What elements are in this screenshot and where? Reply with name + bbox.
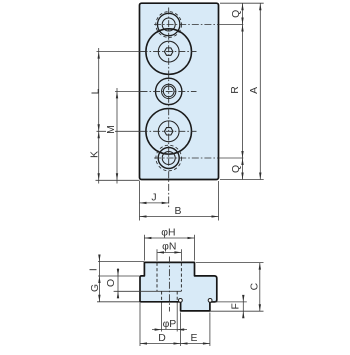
extension line bottom-right of plate bbox=[220, 179, 264, 181]
hole H3 thread inner circle bbox=[163, 86, 174, 97]
centerline hole H1 bbox=[154, 24, 219, 26]
svg-text:O: O bbox=[106, 279, 117, 287]
centerline hole H3 bbox=[141, 90, 197, 92]
centerline hole H4 bbox=[141, 130, 197, 132]
extension line top-right of plate bbox=[220, 2, 264, 4]
extension line body top left bbox=[98, 275, 140, 277]
extension line hole H2 to L dimension bbox=[97, 51, 141, 53]
extension line B right bbox=[218, 181, 220, 221]
hole H5 hidden counterbore dashed circle bbox=[156, 145, 182, 171]
dimension line D bbox=[140, 343, 181, 345]
hole H3 thread outer circle bbox=[162, 84, 176, 98]
dimension line phiN bbox=[157, 251, 181, 253]
svg-text:G: G bbox=[90, 284, 101, 292]
extension line phiH right bbox=[194, 235, 196, 261]
hole H3 outer circle bbox=[156, 78, 182, 104]
svg-text:F: F bbox=[230, 303, 241, 309]
extension line hole H1 to Q dimension bbox=[219, 24, 243, 26]
extension line phiH left bbox=[143, 235, 145, 261]
svg-text:R: R bbox=[230, 86, 241, 94]
svg-text:Q: Q bbox=[231, 165, 242, 173]
hidden line hole P right bbox=[176, 291, 178, 303]
hole H1 hidden counterbore dashed circle bbox=[156, 12, 182, 38]
extension line D E middle bbox=[180, 313, 182, 347]
hole H4 screw head circle bbox=[158, 121, 179, 142]
dimension line J bbox=[140, 202, 169, 204]
svg-text:φH: φH bbox=[161, 228, 175, 239]
dimension line E bbox=[181, 343, 210, 345]
dimension line I G bbox=[98, 256, 100, 302]
extension line bottom-left of plate bbox=[96, 179, 140, 181]
extension line body bottom left bbox=[97, 301, 140, 303]
extension line foot bottom right bbox=[211, 310, 264, 312]
svg-text:φP: φP bbox=[163, 319, 177, 330]
svg-text:M: M bbox=[106, 125, 117, 134]
extension line hole H4 to K dimension bbox=[97, 130, 141, 132]
dimension line Q R Q bbox=[242, 3, 244, 179]
dimension line L K bbox=[98, 48, 100, 184]
hole H4 hex socket bbox=[164, 128, 173, 135]
relief notch left bbox=[179, 299, 183, 303]
svg-text:A: A bbox=[249, 87, 260, 94]
dimension line F bbox=[242, 295, 244, 318]
hole H1 inner circle bbox=[162, 18, 175, 31]
extension line hole H3 to M dimension bbox=[115, 90, 141, 92]
hole H5 outer circle bbox=[158, 148, 179, 169]
dimension line C bbox=[259, 263, 261, 312]
hole H2 screw head circle bbox=[158, 41, 179, 62]
hole H2 counterbore outer circle bbox=[146, 29, 192, 75]
extension line phiP right bbox=[176, 303, 178, 332]
svg-text:φN: φN bbox=[162, 242, 176, 253]
centerline hole H5 bbox=[154, 157, 219, 159]
extension line D left bbox=[139, 303, 141, 346]
dimension line O bbox=[117, 268, 119, 299]
counterbore depth line bbox=[114, 290, 182, 292]
svg-text:D: D bbox=[158, 333, 166, 344]
dimension line M bbox=[116, 88, 118, 184]
dimension line A bbox=[259, 3, 261, 179]
svg-text:Q: Q bbox=[231, 10, 242, 18]
svg-text:J: J bbox=[151, 193, 156, 204]
extension line phiN right bbox=[180, 249, 182, 260]
svg-text:B: B bbox=[175, 206, 182, 217]
hidden line counterbore N left bbox=[156, 263, 158, 292]
hole H5 inner circle bbox=[162, 152, 175, 165]
hidden line hole P left bbox=[161, 291, 163, 303]
extension line hole H5 to Q dimension bbox=[219, 157, 243, 159]
extension line step right bbox=[212, 301, 247, 303]
hidden line counterbore N right bbox=[180, 263, 182, 292]
hole H1 outer circle bbox=[158, 13, 180, 35]
label M bbox=[106, 124, 115, 136]
side view body outline bbox=[140, 262, 217, 311]
hole H2 hex socket bbox=[164, 48, 173, 55]
extension line phiP left bbox=[161, 303, 163, 332]
top view body plate bbox=[140, 3, 219, 179]
extension line B left bbox=[139, 181, 141, 221]
svg-text:E: E bbox=[191, 333, 198, 344]
extension line boss top right bbox=[196, 262, 264, 264]
dimension line phiP bbox=[152, 329, 187, 331]
centerline hole H2 bbox=[141, 51, 197, 53]
relief notch right bbox=[208, 299, 212, 303]
vertical centerline side view bbox=[168, 257, 170, 312]
dimension line B bbox=[140, 216, 219, 218]
hole H4 counterbore outer circle bbox=[146, 109, 192, 155]
extension line E right bbox=[209, 313, 211, 347]
vertical centerline top view bbox=[168, 8, 170, 209]
svg-text:K: K bbox=[89, 151, 100, 158]
extension line boss top left bbox=[98, 261, 144, 263]
svg-text:L: L bbox=[91, 88, 102, 94]
svg-text:I: I bbox=[89, 268, 100, 271]
dimension line phiH bbox=[144, 237, 194, 239]
extension line phiN left bbox=[156, 249, 158, 260]
svg-text:C: C bbox=[250, 282, 261, 290]
